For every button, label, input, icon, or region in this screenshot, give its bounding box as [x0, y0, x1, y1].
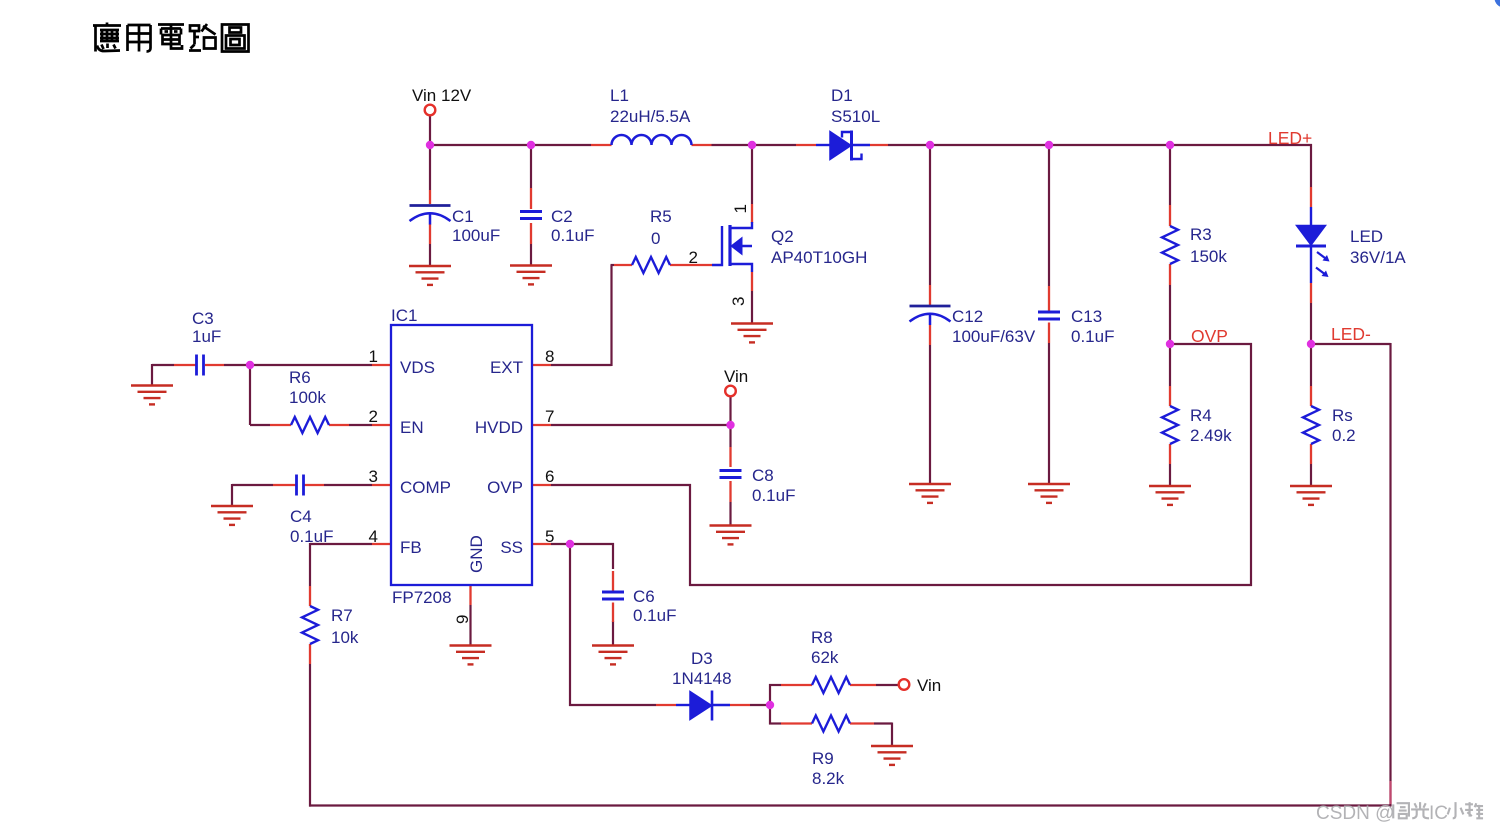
svg-text:1N4148: 1N4148 — [672, 669, 732, 688]
svg-text:AP40T10GH: AP40T10GH — [771, 248, 867, 267]
wire C4 COMP branch — [232, 484, 372, 506]
svg-text:0.1uF: 0.1uF — [290, 527, 333, 546]
svg-text:4: 4 — [369, 527, 378, 546]
wire C12 branch — [929, 145, 931, 484]
wire C1 branch — [429, 145, 431, 266]
svg-text:C6: C6 — [633, 587, 655, 606]
svg-text:R8: R8 — [811, 628, 833, 647]
svg-text:6: 6 — [545, 467, 554, 486]
svg-text:EN: EN — [400, 418, 424, 437]
svg-text:2.49k: 2.49k — [1190, 426, 1232, 445]
wire GND pin 9 — [469, 605, 471, 646]
svg-text:100uF: 100uF — [452, 226, 500, 245]
svg-text:C8: C8 — [752, 466, 774, 485]
ground (C1) — [409, 266, 451, 285]
LED D2 — [1296, 207, 1330, 283]
svg-text:SS: SS — [500, 538, 523, 557]
svg-text:100uF/63V: 100uF/63V — [952, 327, 1036, 346]
resistor R9 — [812, 716, 850, 732]
svg-text:Vin: Vin — [917, 676, 941, 695]
resistor R3 — [1162, 226, 1178, 264]
ground (C4) — [211, 506, 253, 525]
svg-text:CSDN @: CSDN @ — [1316, 803, 1394, 824]
svg-text:D1: D1 — [831, 86, 853, 105]
ground (Rs) — [1290, 486, 1332, 505]
svg-text:IC1: IC1 — [391, 306, 417, 325]
IC pin names — [400, 358, 523, 573]
transistor Q2 — [712, 222, 752, 272]
wire HVDD node — [551, 397, 731, 448]
svg-text:0.1uF: 0.1uF — [752, 486, 795, 505]
svg-text:D3: D3 — [691, 649, 713, 668]
capacitor C6 — [602, 592, 624, 599]
wire R9 branch — [769, 704, 892, 746]
svg-text:150k: 150k — [1190, 247, 1227, 266]
wire C2 branch — [530, 145, 532, 266]
svg-text:36V/1A: 36V/1A — [1350, 248, 1406, 267]
wire C3 to VDS node — [152, 364, 372, 386]
svg-text:OVP: OVP — [487, 478, 523, 497]
blue corner icon — [1495, 0, 1500, 8]
wire R8 branch — [769, 684, 899, 706]
svg-text:VDS: VDS — [400, 358, 435, 377]
svg-text:R3: R3 — [1190, 225, 1212, 244]
svg-text:R9: R9 — [812, 749, 834, 768]
capacitor C4 — [297, 475, 304, 496]
svg-text:R6: R6 — [289, 368, 311, 387]
svg-text:1uF: 1uF — [192, 327, 221, 346]
wire LED branch — [1310, 144, 1312, 344]
svg-text:1: 1 — [731, 204, 750, 213]
capacitor C3 — [197, 355, 204, 376]
svg-text:C12: C12 — [952, 307, 983, 326]
junction node dots — [246, 141, 1315, 709]
terminal Vin 12V — [425, 105, 436, 116]
svg-text:LED-: LED- — [1331, 324, 1371, 344]
svg-text:R7: R7 — [331, 606, 353, 625]
IC U1 FP7208 box — [391, 325, 532, 585]
svg-text:0: 0 — [651, 229, 660, 248]
wire SS node to C6 — [551, 543, 614, 646]
svg-text:Q2: Q2 — [771, 227, 794, 246]
svg-text:R4: R4 — [1190, 406, 1212, 425]
svg-text:10k: 10k — [331, 628, 359, 647]
ground (R7 col / R9) — [871, 746, 913, 765]
svg-text:0.1uF: 0.1uF — [551, 226, 594, 245]
svg-text:R5: R5 — [650, 207, 672, 226]
svg-text:Rs: Rs — [1332, 406, 1353, 425]
svg-text:7: 7 — [545, 407, 554, 426]
svg-text:22uH/5.5A: 22uH/5.5A — [610, 107, 691, 126]
svg-text:FB: FB — [400, 538, 422, 557]
svg-text:C4: C4 — [290, 507, 312, 526]
wire OVP net — [551, 343, 1252, 586]
wire R6 EN branch — [250, 365, 372, 425]
svg-text:8.2k: 8.2k — [812, 769, 845, 788]
svg-text:C2: C2 — [551, 207, 573, 226]
svg-text:HVDD: HVDD — [475, 418, 523, 437]
svg-text:GND: GND — [467, 535, 486, 573]
svg-text:Vin: Vin — [724, 367, 748, 386]
wire EXT to R5 to gate — [551, 265, 614, 366]
ground (C2) — [510, 266, 552, 285]
capacitor C1 — [410, 206, 451, 225]
svg-text:IC: IC — [1429, 803, 1448, 824]
wire VIN top rail — [429, 116, 1312, 146]
ground (C13) — [1028, 484, 1070, 503]
ground (R4) — [1149, 486, 1191, 505]
svg-text:3: 3 — [729, 297, 748, 306]
diode D3 — [676, 691, 730, 721]
ground (C8) — [710, 526, 752, 545]
ground (C6) — [592, 646, 634, 665]
svg-text:C13: C13 — [1071, 307, 1102, 326]
resistor R4 — [1162, 406, 1178, 444]
svg-text:S510L: S510L — [831, 107, 880, 126]
svg-text:C3: C3 — [192, 309, 214, 328]
svg-text:1: 1 — [369, 347, 378, 366]
resistor R5 — [632, 257, 670, 273]
pin stubs (red pin ends) — [174, 145, 1311, 724]
svg-text:8: 8 — [545, 347, 554, 366]
wire Rs branch — [1310, 344, 1312, 486]
wire C13 branch — [1048, 145, 1050, 484]
wire LED- return — [1311, 343, 1391, 806]
capacitor C8 — [720, 471, 742, 478]
title 應用電路圖 (drawn strokes) — [93, 23, 249, 52]
svg-text:0.1uF: 0.1uF — [633, 606, 676, 625]
capacitor C2 — [520, 212, 542, 219]
svg-text:0.2: 0.2 — [1332, 426, 1356, 445]
svg-text:3: 3 — [369, 467, 378, 486]
svg-text:0.1uF: 0.1uF — [1071, 327, 1114, 346]
svg-text:9: 9 — [453, 615, 472, 624]
diode D1 (schottky) — [816, 131, 870, 161]
svg-text:COMP: COMP — [400, 478, 451, 497]
wire C8 to ground — [729, 502, 731, 526]
svg-text:100k: 100k — [289, 388, 326, 407]
ground (C12) — [909, 484, 951, 503]
resistor Rs — [1303, 406, 1319, 444]
svg-text:EXT: EXT — [490, 358, 523, 377]
IC pin numbers — [369, 347, 555, 624]
svg-text:LED+: LED+ — [1268, 128, 1312, 148]
ground (IC pin 9) — [450, 646, 492, 665]
watermark CSDN @调光IC小雅 — [1316, 802, 1483, 824]
wire FB to R7 to bottom rail — [309, 543, 1392, 807]
svg-text:2: 2 — [689, 248, 698, 267]
svg-text:LED: LED — [1350, 227, 1383, 246]
wire R3 branch — [1169, 145, 1171, 344]
svg-text:5: 5 — [545, 527, 554, 546]
capacitor C12 — [910, 306, 951, 325]
svg-text:FP7208: FP7208 — [392, 588, 452, 607]
svg-text:2: 2 — [369, 407, 378, 426]
svg-text:L1: L1 — [610, 86, 629, 105]
resistor R7 — [302, 606, 318, 644]
terminal Vin (R8) — [899, 679, 910, 690]
resistor R8 — [812, 677, 850, 693]
ground (C3) — [131, 386, 173, 405]
capacitor C13 — [1038, 312, 1060, 319]
wire R4 branch — [1169, 344, 1171, 486]
wire SS to D3 anode — [569, 544, 770, 706]
wire Q2 drain and source — [751, 145, 753, 324]
resistor R6 — [291, 417, 329, 433]
inductor L1 — [612, 135, 692, 145]
svg-text:62k: 62k — [811, 648, 839, 667]
ground (Q2 source) — [731, 324, 773, 343]
svg-text:OVP: OVP — [1191, 326, 1228, 346]
svg-text:C1: C1 — [452, 207, 474, 226]
svg-text:Vin 12V: Vin 12V — [412, 86, 472, 105]
terminal Vin (HVDD) — [725, 386, 736, 397]
